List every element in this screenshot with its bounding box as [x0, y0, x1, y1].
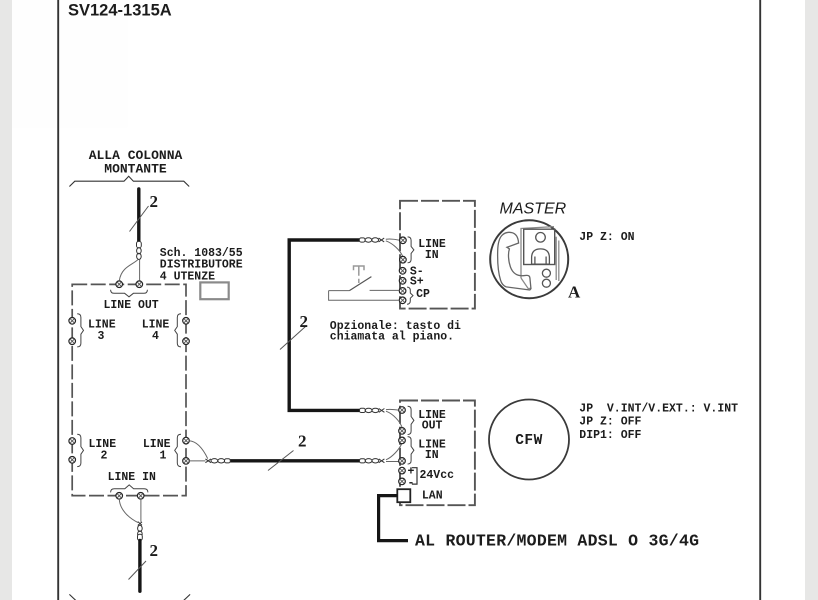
svg-text:LINE IN: LINE IN: [108, 471, 156, 484]
twisted pair TP5 (LINE1 side): [205, 459, 230, 463]
twisted pair TP6 (to CFW LINE IN): [360, 459, 385, 463]
terminal master LINE IN 2: [400, 256, 407, 263]
brace LINE 3: [77, 314, 83, 347]
cable MASTER riser (thick L wire): [289, 240, 359, 410]
wire LINE IN left terminal down (curved): [119, 499, 138, 523]
brace over LINE IN terminals: [111, 485, 148, 493]
label LINE 2: [89, 438, 117, 463]
svg-text:2: 2: [150, 192, 159, 211]
cable size slash (top riser): [130, 206, 149, 232]
svg-text:JP Z: ON: JP Z: ON: [579, 231, 634, 244]
terminal LINE IN right (bottom edge): [137, 493, 144, 500]
terminal LINE 1 lower: [183, 458, 190, 465]
svg-text:SV124-1315A: SV124-1315A: [68, 1, 172, 19]
bracket 24Vcc: [412, 468, 417, 484]
master unit circle: [490, 220, 568, 298]
terminal LINE 2 upper: [69, 438, 76, 445]
svg-text:JP V.INT/V.EXT.: V.INT: JP V.INT/V.EXT.: V.INT: [579, 402, 738, 415]
terminal LINE 2 lower: [69, 457, 76, 464]
svg-text:OUT: OUT: [422, 420, 443, 433]
label ALLA COLONNA MONTANTE: [89, 148, 183, 177]
terminal LINE IN left (bottom edge): [116, 493, 123, 500]
label CFW LINE OUT: [418, 409, 446, 433]
brace CP: [407, 287, 413, 304]
label JP V.INT: [579, 402, 738, 442]
terminal LINE OUT left (top edge): [116, 281, 123, 288]
svg-text:MONTANTE: MONTANTE: [104, 162, 167, 177]
svg-text:MASTER: MASTER: [500, 201, 567, 218]
wire button to CP bottom: [329, 291, 400, 301]
pushbutton switch blade: [349, 277, 371, 291]
wire button to CP top: [370, 289, 400, 291]
terminal LINE 4 upper: [183, 318, 190, 325]
svg-text:JP Z: OFF: JP Z: OFF: [579, 416, 641, 429]
terminal LINE 3 lower: [69, 338, 76, 345]
label CFW LINE IN: [418, 439, 446, 463]
terminal LINE 3 upper: [69, 318, 76, 325]
terminal CFW LINE IN 2: [399, 458, 406, 465]
svg-text:A: A: [568, 283, 581, 302]
wire TP6 to LINE IN top (curved): [386, 444, 402, 460]
svg-text:CP: CP: [416, 288, 430, 301]
CFW repeater box (dashed): [400, 401, 475, 506]
svg-text:LAN: LAN: [422, 490, 443, 503]
twisted pair TP3 (to master LINE IN): [359, 238, 384, 242]
wire button left contact: [329, 290, 350, 292]
wire long run LINE1 to CFW (thick): [230, 459, 360, 462]
svg-text:chiamata al piano.: chiamata al piano.: [330, 331, 454, 344]
terminal LINE 4 lower: [183, 338, 190, 345]
svg-text:S+: S+: [410, 275, 424, 288]
label LINE 4: [142, 318, 170, 343]
brace under LINE OUT terminals: [111, 290, 148, 297]
svg-text:-: -: [408, 477, 415, 490]
cable size slash (vertical run): [280, 327, 306, 350]
wire riser cable (bottom, thick): [138, 540, 141, 591]
svg-text:2: 2: [298, 431, 307, 450]
terminal CFW LINE OUT 1: [399, 407, 406, 414]
distributor unit box (dashed): [72, 284, 186, 495]
svg-text:24Vcc: 24Vcc: [420, 469, 455, 482]
master interface box (dashed): [400, 201, 475, 309]
svg-text:IN: IN: [425, 449, 439, 462]
brace LINE 2: [77, 434, 83, 466]
wire TP4 to LINE OUT bottom (curved): [386, 411, 402, 428]
label master LINE IN: [418, 238, 446, 262]
brace master LINE IN: [408, 237, 414, 263]
brace CFW LINE OUT: [408, 406, 414, 434]
master icon: person: [531, 233, 550, 265]
brace LINE 1: [175, 434, 181, 466]
terminal LINE 1 upper: [183, 437, 190, 444]
svg-text:IN: IN: [425, 249, 439, 262]
wire LAN to router (thick): [379, 496, 408, 541]
frame border left line: [57, 0, 59, 600]
svg-text:LINE OUT: LINE OUT: [104, 299, 159, 312]
svg-text:4: 4: [152, 330, 159, 343]
wire TP6 to LINE IN bottom: [386, 461, 399, 463]
terminal master LINE IN 1: [400, 237, 407, 244]
brace CFW LINE IN: [408, 437, 414, 464]
terminal CP 1: [399, 288, 406, 295]
svg-text:1: 1: [160, 449, 167, 462]
brace to riser column (top): [69, 176, 189, 186]
master icon: handset: [498, 232, 531, 290]
master icon: buttons: [542, 269, 550, 287]
svg-text:AL ROUTER/MODEM ADSL O 3G/4G: AL ROUTER/MODEM ADSL O 3G/4G: [415, 531, 699, 550]
wire TP3 to LINE IN bottom terminal (curved): [386, 241, 403, 257]
wire TP3 to LINE IN top terminal: [386, 239, 400, 240]
terminal 24Vcc +: [399, 467, 406, 474]
terminal CFW LINE OUT 2: [399, 428, 406, 435]
svg-text:2: 2: [300, 312, 309, 331]
wire TP1 to right terminal: [139, 259, 141, 280]
terminal 24Vcc -: [399, 478, 406, 485]
terminal LINE OUT right (top edge): [136, 281, 143, 288]
svg-text:3: 3: [97, 330, 104, 343]
pushbutton actuator (T symbol): [354, 266, 365, 283]
terminal S-: [399, 268, 406, 275]
label LINE 3: [88, 318, 116, 343]
note Opzionale: [330, 320, 461, 344]
twisted pair TP4 (to CFW LINE OUT): [360, 408, 385, 412]
terminal CFW LINE IN 1: [399, 437, 406, 444]
terminal S+: [399, 278, 406, 285]
svg-text:DIP1: OFF: DIP1: OFF: [579, 429, 641, 442]
label LINE 1: [143, 438, 171, 463]
wire riser cable (top, thick): [137, 189, 140, 241]
brace bottom (cut off): [69, 594, 190, 600]
svg-text:2: 2: [101, 449, 108, 462]
master icon: screen: [524, 229, 555, 264]
master icon: panel: [521, 227, 559, 289]
svg-text:CFW: CFW: [515, 433, 543, 449]
wire TP4 to LINE OUT top: [386, 408, 399, 411]
wire TP5 to LINE1 top terminal (curved): [189, 441, 207, 459]
wire TP1 to left terminal (curved): [119, 259, 138, 280]
brace LINE 4: [175, 314, 181, 347]
label Sch. 1083/55 DISTRIBUTORE 4 UTENZE: [160, 247, 243, 283]
frame border right line: [759, 0, 761, 600]
CFW unit circle: [489, 400, 569, 480]
cable size slash (bottom riser): [129, 561, 147, 580]
twisted pair TP2 (LINE IN to bottom riser): [138, 522, 143, 541]
distributor block symbol (small rectangle): [200, 282, 228, 299]
cable size slash (long run): [268, 451, 294, 471]
wire TP5 to LINE1 bottom terminal: [189, 460, 205, 462]
twisted pair TP1 (riser to LINE OUT): [137, 241, 142, 259]
wire LINE IN right terminal down: [140, 499, 142, 522]
LAN port square: [397, 489, 410, 502]
terminal CP 2: [399, 297, 406, 304]
svg-text:2: 2: [150, 541, 159, 560]
